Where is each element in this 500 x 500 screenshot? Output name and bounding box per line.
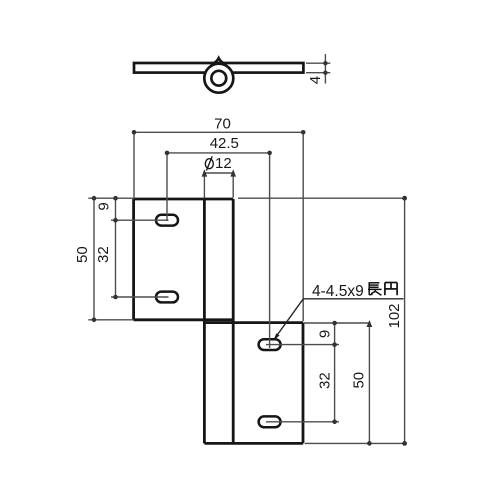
svg-text:12: 12 [215,155,232,172]
svg-text:32: 32 [316,372,333,389]
svg-text:4-4.5x9: 4-4.5x9 [312,283,364,300]
svg-text:42.5: 42.5 [210,135,239,152]
svg-text:4: 4 [307,76,324,84]
svg-text:9: 9 [317,330,334,338]
svg-text:102: 102 [386,303,403,328]
svg-text:32: 32 [95,246,112,263]
svg-text:50: 50 [74,246,91,263]
svg-text:9: 9 [96,202,113,210]
svg-text:50: 50 [350,372,367,389]
svg-text:70: 70 [214,116,231,133]
